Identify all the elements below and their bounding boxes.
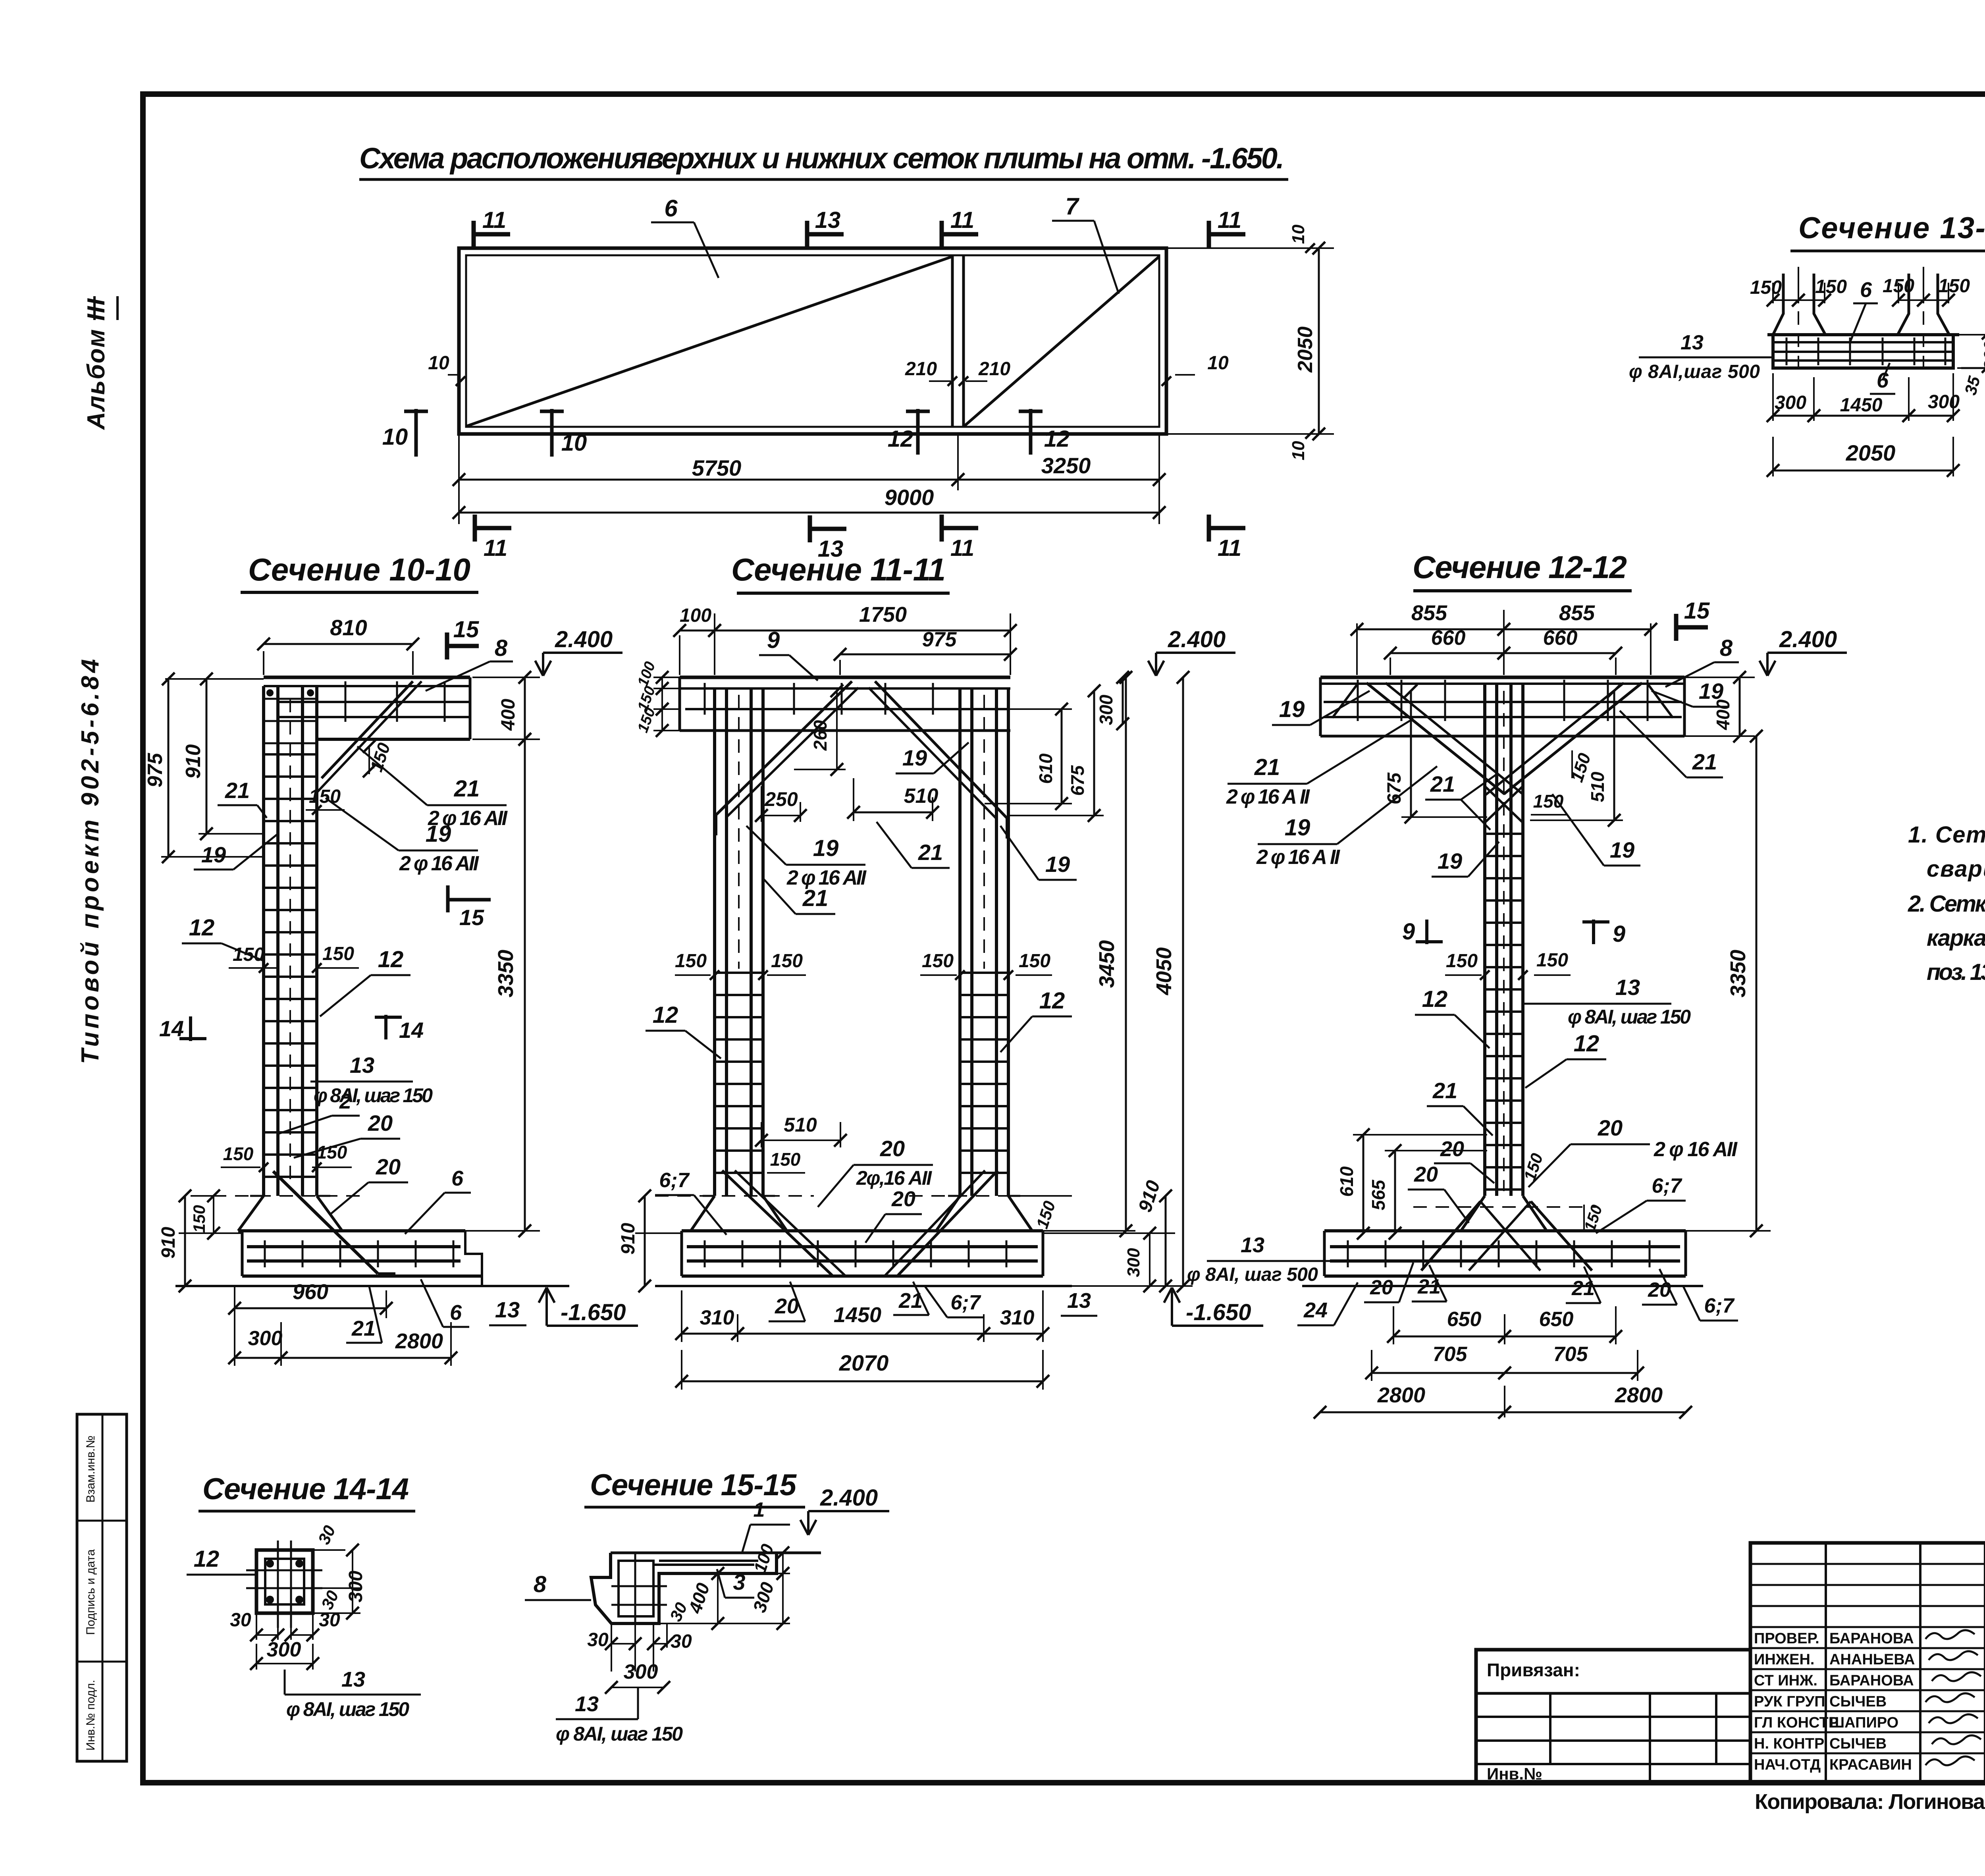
sec10: footing mat mesh 6: [247, 1245, 461, 1248]
sec11: footing mat: [687, 1245, 1038, 1248]
svg-text:13: 13: [815, 207, 841, 233]
svg-text:150: 150: [190, 1205, 208, 1233]
sec13: left column stub: [1773, 274, 1783, 335]
svg-text:20: 20: [1414, 1163, 1438, 1186]
svg-text:250: 250: [764, 788, 798, 810]
svg-text:150: 150: [1446, 951, 1478, 972]
svg-text:2 φ 16 А II: 2 φ 16 А II: [1256, 846, 1341, 869]
svg-text:11: 11: [484, 535, 507, 561]
svg-text:φ 8АI, шаг 500: φ 8АI, шаг 500: [1187, 1264, 1318, 1285]
svg-text:10: 10: [1207, 353, 1229, 374]
sec12: dashed bell line: [1413, 1206, 1596, 1208]
svg-text:19: 19: [1285, 815, 1310, 841]
sec12: dim 400 right: [1684, 677, 1755, 678]
svg-text:13: 13: [1241, 1233, 1264, 1257]
svg-text:2 φ 16 АII: 2 φ 16 АII: [1654, 1138, 1738, 1161]
svg-text:19: 19: [201, 842, 226, 867]
svg-text:Копировала: Логинова: Копировала: Логинова: [1755, 1790, 1985, 1814]
svg-text:3450: 3450: [1095, 940, 1119, 988]
sec14: column cross-section outer: [256, 1550, 313, 1613]
svg-text:20: 20: [1440, 1137, 1464, 1161]
sec13: datum line and -1.650: [1961, 367, 1985, 369]
svg-text:21: 21: [1692, 749, 1717, 774]
sec11: tent bar hooks: [715, 815, 717, 835]
svg-text:975: 975: [922, 628, 957, 651]
svg-text:910: 910: [618, 1223, 639, 1255]
svg-text:11: 11: [950, 207, 974, 233]
sec10: wall with mesh 12: [262, 686, 265, 1196]
svg-text:2800: 2800: [1615, 1383, 1663, 1407]
svg-text:610: 610: [1336, 1166, 1357, 1197]
svg-text:12: 12: [1039, 988, 1065, 1014]
sec13: footing slab outline: [1767, 335, 1959, 368]
sec12: bell at column: [1461, 1196, 1485, 1231]
svg-text:Инв.№ подл.: Инв.№ подл.: [84, 1680, 97, 1751]
svg-text:11: 11: [482, 207, 506, 233]
sec10: dim 960 300 2800: [234, 1286, 235, 1366]
sec12: dim 650 650: [1393, 1306, 1394, 1344]
svg-text:11: 11: [950, 535, 974, 561]
sec12: section marks 9 9: [1425, 920, 1428, 944]
sec11: datum line: [655, 1285, 1072, 1287]
sec11: dashed bell line: [655, 1195, 814, 1197]
svg-text:20: 20: [1648, 1278, 1671, 1301]
svg-text:12: 12: [194, 1546, 220, 1572]
sec11: dim 975: [839, 660, 841, 675]
sec11: dim 510: [853, 778, 854, 821]
sec11: footing outline: [682, 1229, 1043, 1232]
svg-text:960: 960: [293, 1280, 328, 1304]
svg-text:13: 13: [1681, 331, 1704, 354]
svg-text:650: 650: [1539, 1308, 1574, 1331]
plan: bottom dim 9000: [459, 512, 1159, 514]
svg-text:Сечение 15-15: Сечение 15-15: [590, 1468, 797, 1502]
sec11: dim 250: [761, 786, 762, 822]
sec13: right column stub: [1898, 274, 1909, 335]
svg-text:10: 10: [1289, 224, 1308, 244]
svg-text:2.400: 2.400: [1168, 627, 1226, 652]
sec10: dashed line at bell: [191, 1195, 361, 1197]
svg-text:10: 10: [428, 353, 449, 374]
svg-text:12: 12: [653, 1002, 678, 1028]
svg-text:1450: 1450: [1840, 395, 1883, 416]
svg-text:400: 400: [1713, 699, 1733, 730]
svg-text:30: 30: [587, 1629, 609, 1650]
svg-text:19: 19: [1610, 837, 1634, 862]
svg-text:565: 565: [1368, 1179, 1389, 1210]
svg-text:КРАСАВИН: КРАСАВИН: [1829, 1756, 1912, 1773]
svg-text:БАРАНОВА: БАРАНОВА: [1829, 1630, 1914, 1647]
sec11: right dims 610 675 300: [1008, 708, 1072, 710]
margin stamp boxes (inv no / podpis): [77, 1414, 127, 1761]
svg-text:150: 150: [922, 951, 954, 972]
svg-text:21: 21: [454, 776, 480, 802]
svg-text:19: 19: [1438, 848, 1462, 873]
svg-text:1750: 1750: [859, 603, 907, 627]
svg-text:2. Сетки поз. 12 сварить в: 2. Сетки поз. 12 сварить в пространствен…: [1908, 891, 1985, 917]
svg-text:650: 650: [1447, 1308, 1482, 1331]
svg-text:210: 210: [905, 359, 937, 380]
sec15: slab second line: [659, 1560, 758, 1562]
plan: vertical dim 2050: [1166, 247, 1334, 249]
svg-text:14: 14: [399, 1018, 424, 1043]
svg-text:21: 21: [1432, 1078, 1457, 1103]
svg-text:Н. КОНТР: Н. КОНТР: [1754, 1735, 1824, 1752]
svg-text:φ 8АI,шаг 500: φ 8АI,шаг 500: [1629, 361, 1760, 382]
sec12: footing X bars: [1421, 1201, 1480, 1271]
sec12: column dash line: [1503, 691, 1505, 1191]
sec10: slab mesh ticks: [345, 681, 347, 722]
svg-text:6;7: 6;7: [1704, 1294, 1734, 1317]
sec12: dim 705 705: [1371, 1350, 1372, 1381]
svg-text:Подпись и дата: Подпись и дата: [84, 1549, 97, 1635]
svg-text:СЫЧЕВ: СЫЧЕВ: [1829, 1693, 1887, 1710]
svg-text:300: 300: [1928, 391, 1960, 413]
svg-text:2 φ 16 АII: 2 φ 16 АII: [399, 852, 480, 875]
sec11: column dashes upper: [738, 695, 740, 969]
svg-text:300: 300: [248, 1327, 283, 1350]
sec12: top slab lines: [1320, 676, 1684, 679]
svg-text:300: 300: [267, 1638, 301, 1661]
plan: mesh 7 diagonal: [964, 256, 1159, 426]
svg-text:19: 19: [426, 821, 451, 847]
svg-text:975: 975: [144, 753, 167, 788]
sec11: elevation -1.650: [1171, 1289, 1173, 1326]
svg-text:21: 21: [802, 885, 829, 911]
svg-text:3350: 3350: [1726, 950, 1750, 997]
svg-text:30: 30: [230, 1610, 251, 1631]
sec12: footing mat: [1330, 1245, 1680, 1248]
sec12: dim 3350 right: [1523, 1230, 1771, 1232]
svg-text:21: 21: [351, 1317, 376, 1340]
svg-text:Привязан:: Привязан:: [1487, 1660, 1580, 1680]
svg-text:150: 150: [309, 786, 341, 807]
sec15: elevation 2.400: [800, 1520, 808, 1535]
svg-text:10: 10: [382, 424, 408, 450]
svg-text:2070: 2070: [839, 1350, 889, 1375]
svg-text:510: 510: [904, 785, 939, 808]
svg-text:6: 6: [664, 195, 678, 222]
svg-text:6;7: 6;7: [659, 1169, 690, 1192]
titleblock: signatures squiggles: [1925, 1630, 1975, 1639]
svg-text:2800: 2800: [395, 1329, 443, 1353]
sec15: floor level line: [611, 1552, 821, 1554]
svg-text:150: 150: [322, 943, 354, 964]
svg-text:поз. 13.: поз. 13.: [1927, 959, 1985, 985]
svg-text:8: 8: [495, 635, 508, 661]
titleblock: privyazan table: [1476, 1650, 1750, 1783]
plan: section marks 12: [916, 409, 920, 455]
svg-text:9: 9: [1613, 921, 1625, 947]
svg-text:810: 810: [330, 615, 367, 640]
svg-text:10: 10: [561, 430, 587, 456]
plan: section marks bottom 11 13 11 11: [473, 515, 477, 542]
svg-text:705: 705: [1433, 1343, 1468, 1366]
sec11: dim 510 150 lower: [761, 1122, 762, 1147]
svg-text:610: 610: [1035, 753, 1056, 784]
sec10: datum ground line: [175, 1285, 569, 1287]
svg-text:-1.650: -1.650: [1186, 1300, 1251, 1325]
sec11: dim 310 1450 310: [681, 1290, 682, 1342]
svg-text:20: 20: [376, 1154, 401, 1179]
sec12: slab end hooks: [1332, 684, 1358, 718]
plan: slab outline outer: [459, 248, 1166, 434]
plan: slab outline inner: [466, 255, 1159, 427]
svg-text:Взам.инв.№: Взам.инв.№: [84, 1435, 97, 1502]
svg-text:20: 20: [775, 1294, 799, 1318]
svg-text:Сечение 10-10: Сечение 10-10: [248, 552, 470, 587]
svg-text:-1.650: -1.650: [561, 1300, 626, 1325]
svg-text:2 φ 16 А II: 2 φ 16 А II: [1226, 785, 1310, 808]
sec11: right 300 vert: [1149, 1233, 1151, 1286]
svg-text:150: 150: [233, 944, 264, 965]
svg-text:12: 12: [1574, 1031, 1600, 1057]
sec11: bell at columns: [691, 1196, 715, 1231]
sec11: slab mesh ticks: [704, 683, 706, 715]
svg-text:АНАНЬЕВА: АНАНЬЕВА: [1829, 1651, 1915, 1668]
svg-text:24: 24: [1303, 1298, 1328, 1322]
svg-text:13: 13: [1615, 975, 1640, 1000]
svg-text:1. Сетки поз. 6,7,12, 8,9 по: 1. Сетки поз. 6,7,12, 8,9 после монтажа: [1908, 822, 1985, 848]
svg-text:φ 8АI, шаг 150: φ 8АI, шаг 150: [314, 1084, 433, 1107]
sec11: footing X bent bars: [722, 1170, 832, 1275]
svg-text:4050: 4050: [1152, 947, 1176, 995]
svg-text:150: 150: [1019, 951, 1050, 972]
svg-text:705: 705: [1553, 1343, 1588, 1366]
sec10: wall corner bars: [266, 689, 274, 696]
sec12: datum line: [1302, 1285, 1703, 1287]
sec11: left rotated dims 100 150 150: [653, 677, 680, 678]
svg-text:ШАПИРО: ШАПИРО: [1829, 1714, 1898, 1731]
svg-text:19: 19: [813, 835, 839, 861]
svg-text:300: 300: [624, 1660, 658, 1683]
svg-text:5750: 5750: [692, 455, 742, 480]
sec12: elevation 2.400: [1760, 661, 1767, 676]
sec14: leader 13 f8AI shag 150: [284, 1670, 286, 1695]
svg-text:Типовой проект 902-5-6.84: Типовой проект 902-5-6.84: [77, 659, 104, 1064]
svg-text:300: 300: [1981, 341, 1985, 370]
sec14: column cross-section inner: [265, 1559, 304, 1604]
sec12: X cross in column top: [1485, 786, 1523, 823]
sec12: footing outline: [1324, 1229, 1686, 1232]
svg-text:2: 2: [339, 1089, 351, 1113]
svg-text:150: 150: [771, 951, 803, 972]
sec11: elevation 2.400: [1148, 661, 1156, 676]
sec10: section marks 14 14: [189, 1016, 192, 1041]
sec14: rebar dots: [266, 1560, 274, 1568]
svg-text:ИНЖЕН.: ИНЖЕН.: [1754, 1651, 1814, 1668]
svg-text:150: 150: [317, 1142, 347, 1163]
svg-text:13: 13: [1067, 1289, 1091, 1313]
svg-text:21: 21: [918, 840, 943, 865]
svg-text:СЫЧЕВ: СЫЧЕВ: [1829, 1735, 1887, 1752]
sec15: section outline: [591, 1553, 777, 1623]
svg-text:Схема расположенияверхних и ни: Схема расположенияверхних и нижних сеток…: [359, 142, 1284, 175]
svg-text:ПРОВЕР.: ПРОВЕР.: [1754, 1630, 1819, 1647]
sec13: dim 2050: [1773, 470, 1953, 472]
sec10: right dim 400 3350: [472, 677, 540, 678]
svg-text:510: 510: [1587, 771, 1608, 802]
sec15: leader 13 f8AI shag 150: [637, 1687, 639, 1719]
svg-text:910: 910: [182, 744, 205, 779]
svg-text:СТ ИНЖ.: СТ ИНЖ.: [1754, 1672, 1817, 1689]
svg-text:12: 12: [888, 426, 913, 452]
sec13: centre dash lines: [1798, 267, 1799, 377]
svg-text:20: 20: [891, 1187, 915, 1211]
svg-text:300: 300: [345, 1571, 366, 1602]
sec12: top dim 855 855: [1356, 623, 1358, 675]
sec10: elevation 2.400: [535, 661, 543, 676]
svg-text:9: 9: [1402, 919, 1415, 945]
svg-text:2050: 2050: [1294, 326, 1317, 373]
svg-text:2.400: 2.400: [1779, 627, 1837, 652]
plan: joint double line: [951, 255, 954, 427]
svg-text:300: 300: [1096, 694, 1116, 725]
svg-text:9000: 9000: [885, 485, 934, 510]
titleblock: signature table: [1750, 1543, 1985, 1783]
svg-text:φ 8АI, шаг 150: φ 8АI, шаг 150: [286, 1698, 409, 1720]
svg-text:8: 8: [534, 1571, 547, 1597]
sec10: top slab outline: [264, 676, 470, 679]
sec12: central column: [1483, 684, 1486, 1196]
sec13: mesh 6 bars in slab: [1775, 341, 1952, 343]
sec15: bent bar in slab: [653, 1564, 754, 1566]
svg-text:20: 20: [1598, 1115, 1623, 1140]
sec11: dim 260: [836, 691, 838, 769]
svg-text:21: 21: [1430, 771, 1455, 796]
svg-text:300: 300: [1124, 1248, 1143, 1277]
svg-text:13: 13: [495, 1297, 520, 1322]
sec11: right column: [958, 688, 962, 1196]
sec10: left dims 910 150 at footing: [179, 1232, 242, 1234]
svg-text:19: 19: [902, 745, 927, 770]
sec15: inner mesh: [619, 1561, 653, 1616]
sec12: dim 660 660: [1389, 657, 1391, 675]
svg-text:6: 6: [450, 1301, 462, 1325]
svg-text:Инв.№: Инв.№: [1487, 1764, 1542, 1783]
plan: section marks 10 left: [414, 409, 418, 457]
svg-text:12: 12: [1044, 426, 1070, 452]
svg-text:15: 15: [1684, 598, 1710, 624]
sec11: top dim 100 1750: [679, 635, 680, 675]
sec11: right dims 3450 4050: [1010, 1230, 1135, 1232]
svg-text:150: 150: [770, 1149, 801, 1170]
plan: mesh 6 diagonal: [467, 256, 952, 426]
svg-text:3250: 3250: [1041, 453, 1091, 478]
sec10: bent bar diagonal in slab: [322, 681, 413, 778]
sec10: footing outline: [238, 1229, 465, 1232]
sec12: slab mesh ticks: [1357, 680, 1359, 721]
svg-text:Сечение 14-14: Сечение 14-14: [202, 1472, 409, 1506]
svg-text:21: 21: [1417, 1275, 1441, 1298]
svg-text:150: 150: [1536, 950, 1568, 971]
sec10: left dims 975 910: [165, 678, 264, 680]
svg-text:2.400: 2.400: [820, 1485, 878, 1511]
svg-text:210: 210: [978, 359, 1010, 380]
svg-text:30: 30: [671, 1631, 692, 1652]
svg-text:2φ,16 АII: 2φ,16 АII: [856, 1167, 932, 1189]
svg-text:6;7: 6;7: [1652, 1174, 1682, 1197]
svg-text:400: 400: [498, 699, 519, 731]
svg-text:РУК ГРУП: РУК ГРУП: [1754, 1693, 1825, 1710]
svg-text:6;7: 6;7: [950, 1291, 981, 1314]
plan: bottom dim 5750 3250: [458, 434, 460, 524]
svg-text:675: 675: [1384, 772, 1405, 804]
svg-text:ГЛ КОНСТР: ГЛ КОНСТР: [1754, 1714, 1839, 1731]
svg-text:Сечение 11-11: Сечение 11-11: [731, 552, 946, 587]
sec12: dims 610 565: [1353, 1134, 1487, 1136]
svg-text:каркасы при помощи отдельны: каркасы при помощи отдельных стержней: [1927, 925, 1985, 951]
svg-text:3350: 3350: [494, 950, 518, 997]
svg-text:1450: 1450: [834, 1303, 881, 1327]
svg-text:14: 14: [159, 1016, 184, 1041]
svg-text:11: 11: [1218, 207, 1241, 233]
svg-text:13: 13: [350, 1053, 374, 1078]
sec12: dim 510 right: [1530, 819, 1623, 821]
svg-text:11: 11: [1218, 535, 1241, 561]
svg-text:6: 6: [451, 1166, 464, 1190]
svg-text:9: 9: [767, 627, 780, 653]
svg-text:310: 310: [700, 1306, 734, 1329]
sec11: dim 2070: [682, 1380, 1043, 1382]
svg-text:660: 660: [1431, 627, 1466, 650]
svg-text:20: 20: [880, 1136, 905, 1161]
sec10: bent bar 21 into footing: [273, 1171, 378, 1274]
svg-text:20: 20: [1370, 1276, 1393, 1299]
svg-text:675: 675: [1067, 765, 1088, 796]
svg-text:19: 19: [1045, 852, 1070, 877]
sec10: section mark 15 top: [445, 632, 449, 659]
svg-text:7: 7: [1065, 193, 1079, 220]
svg-text:13: 13: [575, 1692, 599, 1716]
sec10: elevation -1.650: [545, 1289, 548, 1326]
sec12: dim 675 center: [1401, 816, 1487, 818]
svg-text:150: 150: [1533, 791, 1564, 812]
svg-text:3: 3: [733, 1569, 745, 1595]
svg-text:660: 660: [1543, 627, 1578, 650]
sec11: top slab lines: [680, 676, 1010, 679]
sec15: label 1 leader (top): [750, 1524, 790, 1526]
sec10: section mark 15 bottom: [446, 885, 450, 912]
svg-text:2.400: 2.400: [555, 627, 613, 652]
svg-text:φ 8АI, шаг 150: φ 8АI, шаг 150: [1568, 1006, 1691, 1028]
sec14: section grid bars: [277, 1541, 279, 1628]
svg-text:21: 21: [225, 778, 250, 803]
svg-text:15: 15: [453, 617, 479, 642]
svg-text:13: 13: [341, 1668, 365, 1691]
svg-text:2050: 2050: [1846, 440, 1896, 465]
svg-text:12: 12: [189, 915, 215, 941]
sec11: left column: [713, 688, 716, 1196]
svg-text:15: 15: [459, 905, 484, 930]
svg-text:Сечение 12-12: Сечение 12-12: [1413, 549, 1627, 585]
sec12: dim 2800 2800: [1504, 1386, 1505, 1417]
plan: section marks 11 13 11 7 11 top: [472, 221, 476, 248]
svg-text:1: 1: [754, 1498, 765, 1521]
svg-text:НАЧ.ОТД: НАЧ.ОТД: [1754, 1756, 1821, 1773]
svg-text:10: 10: [1289, 441, 1308, 460]
svg-text:21: 21: [1254, 754, 1280, 780]
sec10: top dim 810: [263, 651, 264, 675]
svg-text:510: 510: [784, 1114, 817, 1136]
sec11: tent bent bars: [716, 681, 852, 815]
svg-text:100: 100: [680, 605, 711, 626]
sec12: tent bent bars V: [1366, 683, 1505, 794]
sec10: wall upper rungs: [262, 698, 318, 700]
svg-text:310: 310: [1000, 1306, 1035, 1329]
sec10: bell at wall base: [238, 1196, 264, 1231]
svg-text:150: 150: [223, 1143, 254, 1164]
